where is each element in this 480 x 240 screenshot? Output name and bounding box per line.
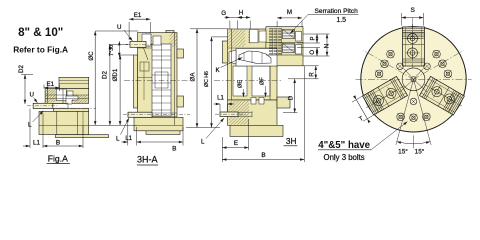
step line Fig.A: [39, 124, 89, 126]
svg-text:B: B: [56, 140, 60, 147]
dimension N 3H: [324, 34, 331, 56]
hatching 3H-A front: [130, 33, 168, 47]
dimension L1 3H: [214, 96, 235, 112]
dimension T chuck: [352, 95, 373, 123]
dimension G 3H: [221, 10, 243, 29]
svg-text:M: M: [287, 9, 292, 16]
ext lines PONR 3H: [283, 34, 330, 113]
angle dimension arc: [397, 141, 430, 144]
taper angle 7-30 3H-A: [109, 41, 121, 57]
chuck body section 3H: [222, 27, 303, 137]
bore white 3H: [233, 29, 270, 96]
internal lines Fig.A: [45, 89, 89, 135]
label U 3H-A: [117, 24, 133, 41]
svg-text:R: R: [309, 72, 315, 77]
label U Fig.A: [30, 91, 38, 103]
chuck center boss: [400, 68, 427, 92]
chuck face circle: [361, 27, 466, 132]
stub centerline 3H: [215, 113, 246, 115]
dimension ØC H6 3H: [204, 37, 228, 128]
dimension B 3H-A: [137, 127, 183, 152]
dimension D 3H: [288, 79, 296, 113]
jaw slot white detail Fig.A: [56, 89, 73, 101]
dimension M 3H: [277, 9, 302, 27]
svg-text:N: N: [324, 44, 331, 48]
dimension B 3H: [222, 66, 304, 162]
serration teeth 3H: [269, 28, 295, 55]
pinion sockets: [397, 63, 431, 105]
chuck horizontal centerline: [356, 78, 472, 80]
mounting bolt holes: [375, 50, 451, 121]
chuck jaw top: [403, 24, 425, 70]
bisector centerline upper-right: [414, 50, 464, 79]
pinion section 3H: [251, 98, 264, 105]
label ØF bore: [260, 77, 267, 97]
svg-text:D: D: [288, 95, 294, 100]
note 4and5 bolts: [318, 122, 408, 162]
svg-text:ØA: ØA: [189, 72, 196, 82]
dimension O 3H: [310, 48, 318, 57]
dimension S chuck: [402, 7, 424, 30]
chuck body section Fig.A: [39, 77, 109, 137]
svg-text:15°: 15°: [415, 148, 425, 156]
svg-text:15°: 15°: [398, 148, 408, 156]
hatching 3H top left: [211, 30, 265, 47]
stub centerline Fig.A: [27, 105, 58, 107]
hatching 3H-A back: [156, 33, 194, 47]
label K 3H: [216, 58, 243, 75]
svg-text:7°30': 7°30': [109, 44, 115, 56]
wedge detail Fig.A: [66, 96, 78, 104]
svg-text:4"&5" have: 4"&5" have: [318, 140, 370, 151]
back section lines Fig.A: [59, 81, 89, 84]
svg-text:H: H: [239, 9, 243, 16]
svg-text:D2: D2: [18, 64, 25, 72]
bottom ext line 3H-A: [89, 124, 137, 126]
svg-text:L1: L1: [33, 140, 40, 147]
dimension D2 3H-A: [102, 45, 128, 126]
dimension P 3H: [311, 34, 319, 43]
back joint line 3H-A: [174, 33, 176, 126]
svg-text:Only 3 bolts: Only 3 bolts: [324, 153, 365, 162]
chuck jaw lower-right: [416, 74, 467, 116]
dimension L1 3H-A: [122, 119, 137, 146]
dimension B Fig.A: [43, 126, 83, 148]
subtitle refer to Fig.A: [13, 44, 68, 54]
internal lines 3H-A: [138, 48, 153, 100]
dimension D2 left: [18, 64, 33, 104]
dimension E1 Fig.A: [44, 81, 60, 91]
dimension ØC 3H-A: [88, 31, 139, 125]
view label Fig.A: [47, 153, 70, 163]
svg-text:L: L: [116, 136, 120, 143]
dimension L1 Fig.A: [23, 109, 43, 149]
axis centerline 3H: [214, 79, 282, 81]
svg-text:1.5: 1.5: [336, 17, 346, 24]
pinion stub 3H-A: [128, 112, 177, 117]
svg-text:U: U: [30, 91, 34, 98]
label L 3H-A: [116, 118, 129, 143]
svg-text:E1: E1: [134, 12, 142, 19]
svg-text:ØC: ØC: [88, 51, 95, 61]
U stub 3H-A: [126, 41, 152, 47]
label ØE bore: [238, 80, 245, 97]
jaw slot white 3H-A: [142, 34, 161, 46]
hatching Fig.A front: [33, 89, 72, 102]
svg-text:P: P: [311, 36, 317, 40]
angle lines 15deg: [396, 79, 431, 148]
svg-text:Fig.A: Fig.A: [48, 153, 68, 163]
internal lines 3H: [228, 29, 277, 100]
svg-text:ØD1: ØD1: [112, 68, 119, 81]
dimension E1 3H-A: [129, 12, 150, 40]
pinion stub 3H: [220, 111, 252, 117]
wedge detail 3H: [229, 49, 277, 67]
axis centerline 3H-A: [124, 79, 190, 81]
taper line 3H-A: [144, 48, 149, 60]
svg-text:8" & 10": 8" & 10": [18, 26, 63, 39]
label L Fig.A: [28, 111, 44, 129]
hatching 3H lower: [206, 101, 274, 125]
svg-text:3H: 3H: [286, 136, 297, 146]
guideway white 3H-A: [152, 44, 171, 116]
hatching Fig.A lower: [66, 95, 97, 103]
stub centerline 3H-A: [123, 114, 190, 116]
svg-text:L1: L1: [217, 96, 224, 102]
view label 3H: [284, 136, 298, 146]
left dims bottom ext 3H: [186, 127, 220, 129]
pinion stub Fig.A: [33, 103, 68, 109]
svg-text:B: B: [261, 152, 265, 159]
dimension R 3H: [309, 66, 317, 79]
svg-text:E1: E1: [47, 81, 55, 88]
step line 3H-A: [134, 124, 183, 126]
label L 3H: [201, 118, 224, 146]
label 15deg right: [415, 148, 425, 156]
dimension H 3H: [238, 9, 251, 29]
bisector centerline upper-left: [363, 50, 413, 79]
hatching 3H top mid: [235, 30, 269, 43]
view label 3H-A: [137, 155, 158, 165]
svg-text:Serration Pitch: Serration Pitch: [315, 8, 359, 15]
svg-text:3H-A: 3H-A: [137, 155, 158, 165]
title text 8 and 10 inch: [18, 26, 63, 39]
dimension ØD1 3H-A: [112, 55, 134, 125]
note serration pitch: [290, 8, 359, 34]
svg-text:L: L: [201, 139, 205, 146]
chuck jaw lower-left: [360, 74, 411, 116]
svg-text:S: S: [410, 7, 415, 14]
svg-text:Refer to Fig.A: Refer to Fig.A: [13, 44, 68, 54]
svg-text:B: B: [172, 145, 176, 152]
svg-text:ØE: ØE: [238, 80, 244, 88]
svg-text:L1: L1: [125, 136, 132, 142]
dimension E 3H: [222, 119, 248, 162]
dimension ØA 3H: [189, 29, 227, 128]
svg-text:ØF: ØF: [260, 77, 266, 85]
jaw bolt sections 3H: [266, 32, 303, 56]
chuck body section 3H-A: [134, 30, 184, 134]
svg-text:D2: D2: [102, 70, 109, 78]
svg-text:O: O: [310, 50, 316, 55]
axis centerline Fig.A: [36, 107, 96, 109]
label 15deg left: [398, 148, 408, 156]
svg-text:G: G: [221, 10, 226, 17]
svg-text:ØC H6: ØC H6: [204, 71, 210, 87]
svg-text:E: E: [234, 140, 238, 147]
svg-text:U: U: [117, 24, 121, 31]
